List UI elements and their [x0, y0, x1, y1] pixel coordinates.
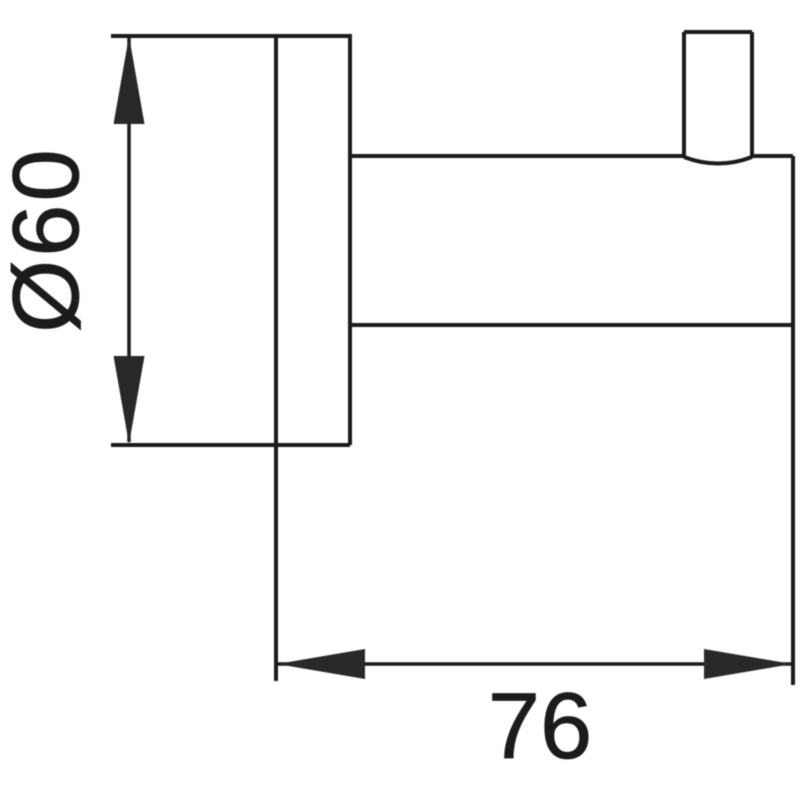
- vertical dimension line Ø60: [127, 38, 131, 442]
- horizontal dimension line 76: [278, 662, 791, 666]
- arrowhead up (Ø60 top): [114, 36, 145, 124]
- svg-text:Ø60: Ø60: [0, 146, 98, 333]
- arrowhead down (Ø60 bottom): [114, 356, 145, 444]
- peg right edge: [750, 32, 754, 158]
- peg top edge: [684, 30, 752, 34]
- hook arm top edge (right of peg): [751, 154, 793, 158]
- hook arm right edge (extends down as extension line for 76): [791, 156, 795, 685]
- mounting plate left edge (extends down as extension line for 76): [274, 36, 278, 681]
- arrowhead left (76 left): [277, 649, 365, 679]
- bottom extension line / plate bottom edge: [111, 443, 350, 447]
- svg-text:76: 76: [488, 673, 593, 778]
- peg left edge: [682, 32, 686, 158]
- peg bottom arc: [684, 157, 752, 164]
- hook arm top edge (left of peg): [350, 154, 686, 158]
- top extension line: [111, 34, 352, 38]
- hook arm bottom edge: [350, 323, 793, 327]
- arrowhead right (76 right): [704, 649, 792, 679]
- mounting plate right edge: [348, 36, 352, 445]
